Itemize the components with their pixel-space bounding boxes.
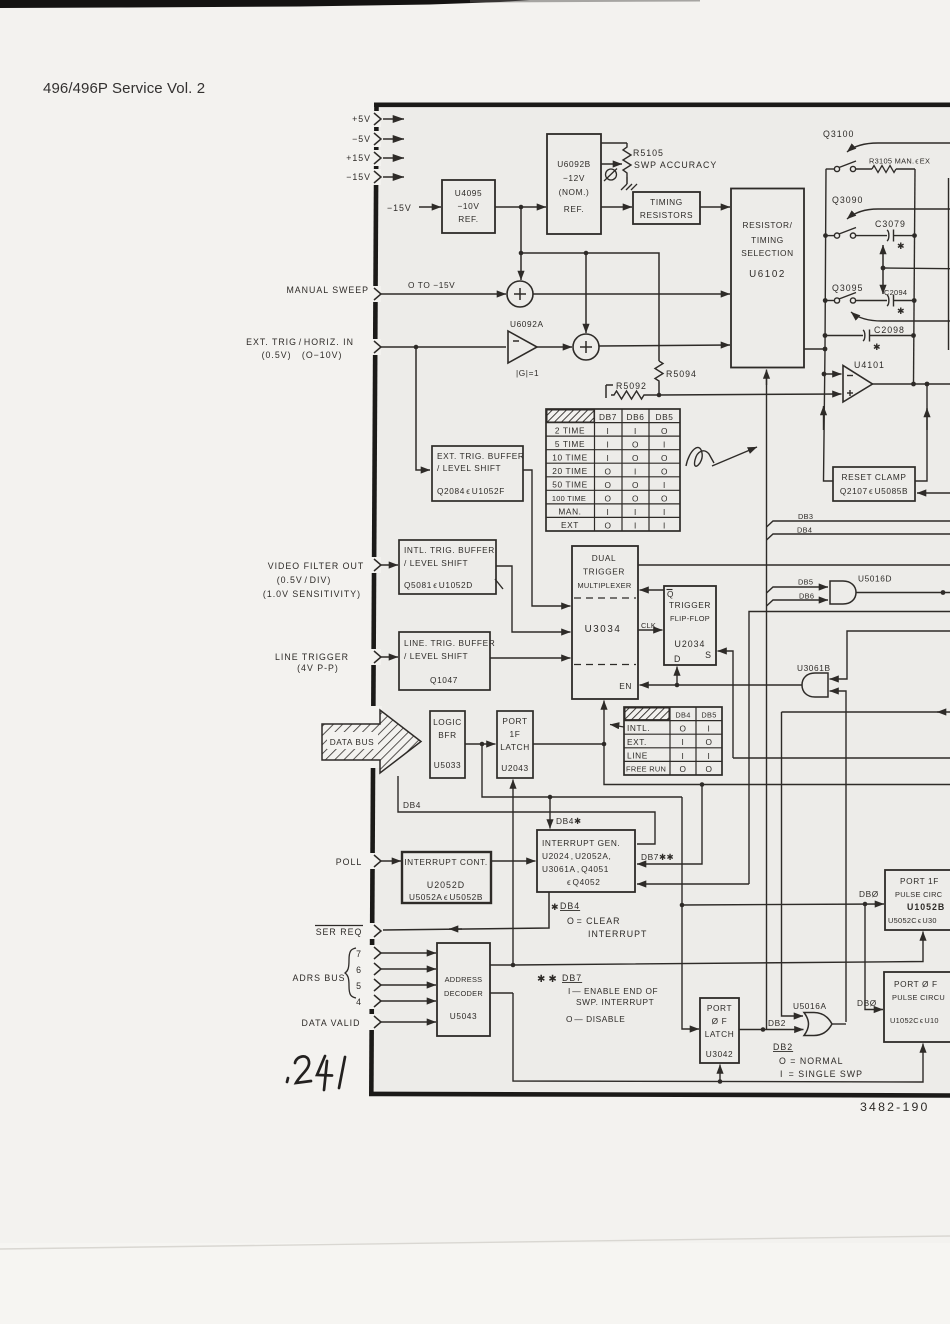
svg-text:O TO −15V: O TO −15V	[408, 280, 455, 290]
svg-text:DATA BUS: DATA BUS	[330, 737, 375, 747]
svg-text:DB7✱✱: DB7✱✱	[641, 852, 674, 862]
svg-text:(4V P-P): (4V P-P)	[297, 663, 339, 673]
svg-text:O: O	[604, 466, 611, 476]
wire DB2 from latch to U5016A	[739, 1029, 804, 1031]
svg-text:I: I	[682, 751, 685, 761]
svg-text:U5016A: U5016A	[793, 1001, 827, 1011]
svg-text:I: I	[708, 751, 711, 761]
svg-text:O = CLEAR: O = CLEAR	[567, 916, 621, 926]
summer circle 1	[507, 281, 533, 307]
svg-text:DB7: DB7	[599, 412, 617, 422]
svg-text:O: O	[661, 426, 668, 436]
svg-text:DB4: DB4	[675, 711, 690, 720]
block ADDRESS DECODER U5043	[437, 943, 490, 1036]
svg-text:/ LEVEL SHIFT: / LEVEL SHIFT	[404, 558, 468, 568]
block PORT 1F LATCH U2043	[497, 711, 533, 778]
wire timing bus left vertical	[824, 169, 834, 481]
transistor switch Q3090	[832, 195, 950, 238]
junction db0 split	[863, 902, 868, 907]
svg-text:DB4✱: DB4✱	[556, 816, 582, 826]
junction output to cap bank	[911, 382, 916, 387]
arrowhead on ser req wire	[449, 928, 462, 930]
svg-text:O: O	[632, 494, 639, 504]
svg-text:O: O	[661, 453, 668, 463]
svg-text:✱: ✱	[897, 241, 905, 251]
schematic interior scan tint	[374, 103, 950, 1096]
wire interrupt cont to interrupt gen	[491, 860, 536, 862]
junction output to reset clamp	[925, 382, 930, 387]
wire Q-bar from U2034 into U3034	[640, 589, 665, 591]
wire DB6 branch to U5016D	[767, 600, 829, 606]
svg-text:U6092B: U6092B	[557, 159, 591, 169]
screwdriver adjust symbol	[604, 169, 617, 182]
svg-text:U4101: U4101	[854, 360, 885, 370]
svg-text:O = NORMAL: O = NORMAL	[779, 1056, 844, 1066]
svg-text:DB4: DB4	[403, 800, 421, 810]
wire db0 down-leg into port 0f latch	[682, 905, 699, 1029]
wire logic bfr to port 1f latch	[465, 743, 496, 745]
svg-text:−15V: −15V	[387, 203, 412, 213]
svg-text:−5V: −5V	[352, 134, 371, 144]
wire U4095 to U6092B	[495, 206, 546, 208]
svg-text:R5094: R5094	[666, 369, 697, 379]
svg-text:DB2: DB2	[768, 1018, 786, 1028]
node ADRS BUS line 5 chevron	[374, 979, 381, 991]
svg-text:|G|=1: |G|=1	[516, 368, 539, 378]
svg-text:U5016D: U5016D	[858, 574, 892, 584]
svg-text:ADDRESS: ADDRESS	[445, 975, 483, 984]
gate U5016D AND	[830, 574, 892, 605]
block INTERRUPT GEN U2024 U2052A U3061A Q4051 Q4052	[537, 830, 635, 892]
node DATA VALID chevron	[374, 1016, 381, 1028]
brace for adrs bus	[345, 948, 356, 998]
svg-text:BFR: BFR	[438, 730, 456, 740]
wire adrs 6	[381, 968, 436, 970]
capacitor C3079	[856, 219, 916, 251]
svg-text:I: I	[607, 426, 610, 436]
junction decoder out	[511, 963, 516, 968]
svg-text:EXT. TRIG. BUFFER: EXT. TRIG. BUFFER	[437, 451, 525, 461]
wire U6102 output to timing bus	[804, 348, 825, 350]
svg-text:PULSE CIRCU: PULSE CIRCU	[892, 993, 945, 1002]
svg-text:Q2084 ϵ U1052F: Q2084 ϵ U1052F	[437, 486, 505, 496]
svg-text:+15V: +15V	[346, 153, 371, 163]
svg-text:✱: ✱	[897, 306, 905, 316]
svg-text:ADRS BUS: ADRS BUS	[293, 973, 346, 983]
svg-text:LINE. TRIG. BUFFER: LINE. TRIG. BUFFER	[404, 638, 495, 648]
junction at U4095 output	[519, 205, 524, 210]
svg-text:496/496P Service Vol. 2: 496/496P Service Vol. 2	[43, 80, 205, 97]
wire end-of-sweep line with left arrow	[782, 711, 950, 713]
svg-text:MULTIPLEXER: MULTIPLEXER	[577, 581, 631, 590]
svg-text:C3079: C3079	[875, 219, 906, 229]
wire D input from EN line	[676, 667, 678, 686]
svg-text:DB5: DB5	[701, 711, 716, 720]
svg-text:−15V: −15V	[346, 172, 371, 182]
wire decoder second output	[490, 992, 513, 994]
svg-text:(NOM.): (NOM.)	[559, 187, 590, 197]
wire U6092A to summer 2	[537, 346, 572, 348]
svg-text:(1.0V SENSITIVITY): (1.0V SENSITIVITY)	[263, 589, 361, 599]
junction U6102 out	[823, 347, 828, 352]
svg-text:DB7: DB7	[562, 973, 582, 983]
svg-text:U3034: U3034	[585, 624, 622, 635]
svg-text:TRIGGER: TRIGGER	[583, 567, 625, 577]
svg-text:DB6: DB6	[627, 412, 645, 422]
node -15V input	[374, 171, 404, 183]
svg-text:5: 5	[356, 981, 362, 991]
wire DB4 branch	[767, 534, 950, 540]
wire poll to interrupt cont	[381, 860, 401, 862]
wire U6092B node down to summer 1	[520, 207, 522, 280]
svg-text:U3042: U3042	[706, 1049, 733, 1059]
svg-text:DECODER: DECODER	[444, 989, 483, 998]
junction port 0f latch strobe	[718, 1079, 723, 1084]
svg-text:RESET CLAMP: RESET CLAMP	[841, 472, 906, 482]
svg-text:I = SINGLE SWP: I = SINGLE SWP	[780, 1069, 863, 1079]
wire single sweep to right edge	[733, 757, 950, 759]
squiggle annotation arrow to timing bus	[686, 447, 714, 466]
wire ext buffer to U3034	[523, 470, 571, 606]
svg-text:O: O	[604, 494, 611, 504]
wire adrs 4	[381, 1000, 436, 1002]
svg-text:PORT Ø F: PORT Ø F	[894, 979, 938, 989]
svg-text:O: O	[679, 724, 686, 734]
svg-text:DB3: DB3	[798, 512, 813, 521]
wire adrs 5	[381, 984, 436, 986]
junction R5092/R5094	[657, 393, 662, 398]
capacitor C2098	[825, 325, 914, 352]
wire -15V to U4095	[419, 206, 441, 208]
block INTL TRIG BUFFER / LEVEL SHIFT Q5081 & U1052D	[399, 540, 496, 594]
schematic frame bottom border	[369, 1092, 950, 1098]
junction C2094 right	[912, 298, 917, 303]
svg-text:U3061B: U3061B	[797, 663, 831, 673]
svg-text:TRIGGER: TRIGGER	[669, 600, 711, 610]
junction inverting input node	[822, 372, 827, 377]
block PORT 0F LATCH U3042	[700, 998, 739, 1063]
note DB4 clear interrupt	[551, 901, 647, 939]
node -5V input	[374, 133, 404, 145]
handwritten page number 241	[287, 1056, 345, 1090]
svg-text:I: I	[634, 466, 637, 476]
wire port1f latch output right	[533, 743, 604, 745]
svg-text:✱: ✱	[551, 902, 559, 912]
data bus hatched arrow	[322, 710, 421, 773]
variable coupling arrow between C3079 and C2094	[882, 245, 884, 294]
wire bus line y611 to right edge	[749, 612, 950, 885]
svg-text:MANUAL SWEEP: MANUAL SWEEP	[286, 285, 369, 295]
lower sheet area below page edge line	[0, 1243, 950, 1324]
svg-text:10 TIME: 10 TIME	[552, 453, 587, 463]
svg-text:50 TIME: 50 TIME	[552, 480, 587, 490]
svg-text:EXT. TRIG / HORIZ. IN: EXT. TRIG / HORIZ. IN	[246, 337, 354, 347]
svg-text:I: I	[663, 521, 666, 531]
wire EN from U3061B output	[640, 684, 803, 686]
wire end of sweep enable from decoder zone	[637, 883, 749, 885]
svg-text:/ LEVEL SHIFT: / LEVEL SHIFT	[404, 651, 468, 661]
svg-text:I: I	[607, 507, 610, 517]
svg-text:I: I	[682, 737, 685, 747]
junction C3079 right	[912, 233, 917, 238]
svg-text:5 TIME: 5 TIME	[555, 439, 585, 449]
svg-text:U5052C ϵ U30: U5052C ϵ U30	[888, 916, 937, 925]
scanner black bar at top edge	[0, 0, 530, 8]
svg-text:I: I	[607, 439, 610, 449]
svg-text:Q1047: Q1047	[430, 675, 458, 685]
wire intl buffer to U3034	[496, 566, 571, 632]
svg-text:U5052A ϵ U5052B: U5052A ϵ U5052B	[409, 892, 483, 902]
IC U6092B -12V (NOM.) REF	[547, 134, 601, 234]
junction DB2 node	[761, 1027, 766, 1032]
svg-text:(0.5V) (O−10V): (0.5V) (O−10V)	[262, 350, 343, 360]
svg-text:O: O	[632, 480, 639, 490]
wire U6092B to timing resistors	[601, 206, 632, 208]
svg-text:U2052D: U2052D	[427, 880, 465, 890]
svg-text:2 TIME: 2 TIME	[555, 425, 585, 435]
capacitor C2094	[856, 288, 916, 316]
svg-text:4: 4	[356, 997, 362, 1007]
svg-text:7: 7	[356, 949, 362, 959]
svg-text:INTERRUPT GEN.: INTERRUPT GEN.	[542, 838, 620, 848]
annotation tick at intl buffer	[495, 579, 503, 589]
junction branch to summer 2	[584, 251, 589, 256]
table timing codes	[546, 409, 680, 531]
junction coupling node	[881, 266, 886, 271]
svg-text:Q5081 ϵ U1052D: Q5081 ϵ U1052D	[404, 580, 473, 590]
wire to U4101 inverting input	[824, 373, 842, 375]
svg-text:DUAL: DUAL	[592, 553, 617, 563]
svg-text:DBØ: DBØ	[857, 998, 877, 1008]
svg-text:100 TIME: 100 TIME	[552, 494, 586, 503]
svg-text:S: S	[705, 650, 712, 660]
svg-text:MAN.: MAN.	[558, 507, 581, 517]
svg-text:DB5: DB5	[798, 578, 813, 587]
svg-text:O — DISABLE: O — DISABLE	[566, 1014, 625, 1024]
block LINE TRIG BUFFER / LEVEL SHIFT Q1047	[399, 632, 495, 690]
wire down to U5016A top input	[782, 712, 804, 1016]
node LINE TRIGGER chevron	[374, 651, 381, 663]
svg-text:SER REQ: SER REQ	[316, 927, 363, 937]
junction on vertical	[519, 251, 524, 256]
svg-text:Q3100: Q3100	[823, 129, 854, 139]
node +15V input	[374, 152, 404, 164]
svg-text:DATA VALID: DATA VALID	[302, 1018, 361, 1028]
svg-text:PORT: PORT	[707, 1003, 732, 1013]
IC U4095 -10V REF	[442, 180, 495, 233]
svg-text:Q2107 ϵ U5085B: Q2107 ϵ U5085B	[840, 486, 908, 496]
annotation curved arrow from table to enable wire	[610, 725, 624, 728]
svg-text:LATCH: LATCH	[500, 742, 530, 752]
svg-text:C2098: C2098	[874, 325, 905, 335]
wire db0 line to port 1f pulse	[682, 904, 884, 905]
IC U6102 RESISTOR/TIMING SELECTION	[731, 189, 804, 368]
block INTERRUPT CONT U2052D	[402, 852, 491, 903]
svg-text:O: O	[632, 439, 639, 449]
node EXT TRIG/HORIZ IN chevron	[374, 341, 381, 353]
wire U5016A output to U3061B lower input	[830, 691, 847, 1022]
junction db0 node	[680, 903, 685, 908]
node +5V input	[374, 113, 404, 125]
svg-text:LATCH: LATCH	[705, 1029, 735, 1039]
wire S input from single-sweep line	[718, 651, 734, 758]
ground chassis for R5105	[621, 184, 637, 190]
svg-text:PORT: PORT	[502, 716, 527, 726]
svg-text:/ LEVEL SHIFT: / LEVEL SHIFT	[437, 463, 501, 473]
svg-text:I: I	[663, 507, 666, 517]
table trigger source codes	[624, 707, 722, 775]
block EXT TRIG BUFFER / LEVEL SHIFT Q2084 & U1052F	[432, 446, 525, 501]
svg-text:POLL: POLL	[336, 857, 363, 867]
wire strobe to port 1f pulse circuit	[513, 932, 923, 966]
wire dbus down right leg	[681, 797, 683, 905]
svg-text:6: 6	[356, 965, 362, 975]
transistor switch Q3095	[832, 283, 950, 321]
svg-text:U6102: U6102	[749, 269, 786, 280]
wire timing bus up arrow into U6102	[766, 375, 768, 1029]
svg-text:(0.5V / DIV): (0.5V / DIV)	[277, 575, 332, 585]
junction ext trig node	[414, 345, 419, 350]
wire video filter to intl buffer	[381, 564, 398, 566]
svg-text:SWP ACCURACY: SWP ACCURACY	[634, 160, 717, 170]
svg-text:TIMING: TIMING	[751, 235, 784, 245]
junction DB4 clear branch	[548, 795, 553, 800]
svg-text:O: O	[632, 453, 639, 463]
svg-text:✱: ✱	[873, 342, 881, 352]
wire U5016A output	[833, 1023, 847, 1025]
svg-text:U1052B: U1052B	[907, 902, 945, 912]
node ADRS BUS line 6 chevron	[374, 963, 381, 975]
svg-text:EXT.: EXT.	[627, 737, 647, 747]
svg-text:Q: Q	[667, 589, 674, 599]
node MANUAL SWEEP input chevron	[374, 288, 381, 300]
svg-text:RESISTORS: RESISTORS	[640, 210, 693, 220]
svg-text:U4095: U4095	[455, 188, 482, 198]
wire decoder output to port1f latch and pulse circuits	[490, 964, 513, 966]
wire CLK U3034 to U2034	[638, 629, 663, 631]
svg-text:ϵ Q4052: ϵ Q4052	[567, 877, 600, 887]
svg-text:INTL.: INTL.	[627, 723, 650, 733]
wire summer2 to U6102	[599, 345, 730, 346]
svg-text:TIMING: TIMING	[650, 197, 683, 207]
wire adrs 7	[381, 952, 436, 954]
junction logic bfr out	[480, 742, 485, 747]
wire up into port 0f latch	[719, 1065, 721, 1082]
block LOGIC BFR U5033	[430, 711, 465, 778]
svg-text:EN: EN	[619, 681, 632, 691]
wire reference branch right	[521, 253, 659, 361]
wire ser req from interrupt gen	[383, 892, 549, 930]
node SER REQ chevron	[374, 925, 381, 937]
junction C2098 left	[823, 333, 828, 338]
svg-text:DB5: DB5	[656, 412, 674, 422]
svg-text:I — ENABLE END OF: I — ENABLE END OF	[568, 986, 658, 996]
node VIDEO FILTER OUT chevron	[374, 559, 381, 571]
wire DB4 latch branch down	[482, 744, 682, 797]
svg-text:R5092: R5092	[616, 381, 647, 391]
block RESET CLAMP Q2107 & U5085B	[833, 467, 915, 501]
svg-text:FREE RUN: FREE RUN	[626, 765, 666, 774]
transistor switch Q3100	[823, 129, 950, 172]
wire DB5 branch to U5016D	[767, 587, 829, 593]
svg-text:I: I	[634, 521, 637, 531]
wire manual sweep to summer	[381, 293, 506, 295]
svg-text:DBØ: DBØ	[859, 889, 879, 899]
svg-text:DB6: DB6	[799, 592, 814, 601]
svg-text:SELECTION: SELECTION	[741, 248, 793, 258]
svg-text:O: O	[604, 480, 611, 490]
wire ext trig down to ext trig buffer	[416, 347, 430, 470]
wire U3034 output to right edge	[638, 564, 950, 566]
svg-text:✱✱: ✱✱	[537, 974, 560, 985]
wire U5016D output to right edge	[856, 592, 950, 594]
wire db0 down to port 0f pulse	[865, 904, 883, 1010]
block TIMING RESISTORS	[633, 192, 700, 224]
op-amp U6092A	[508, 319, 544, 378]
svg-text:1F: 1F	[510, 729, 521, 739]
wire right edge vertical stub	[948, 178, 950, 350]
svg-text:O: O	[661, 466, 668, 476]
svg-text:−10V: −10V	[457, 201, 479, 211]
wire up into port 1f latch	[512, 780, 514, 966]
junction on U5016D output	[941, 590, 946, 595]
svg-text:I: I	[634, 507, 637, 517]
svg-text:O: O	[705, 764, 712, 774]
svg-text:CLK: CLK	[641, 621, 656, 630]
resistor R3105 MAN & EXT	[856, 157, 931, 173]
wire U4101 output to right edge	[873, 383, 950, 385]
svg-text:U2034: U2034	[675, 639, 706, 649]
svg-text:U6092A: U6092A	[510, 319, 544, 329]
svg-text:O: O	[604, 521, 611, 531]
resistor R5092 horizontal	[606, 381, 659, 399]
svg-text:EXT: EXT	[561, 520, 579, 530]
junction D on EN wire	[675, 683, 680, 688]
svg-text:INTL. TRIG. BUFFER: INTL. TRIG. BUFFER	[404, 545, 495, 555]
wire DB7 into interrupt gen	[637, 785, 702, 865]
svg-text:U1052C ϵ U10: U1052C ϵ U10	[890, 1016, 939, 1025]
svg-text:U5033: U5033	[434, 760, 461, 770]
svg-text:+5V: +5V	[352, 114, 371, 124]
svg-text:I: I	[607, 453, 610, 463]
wire latch line down and right	[604, 744, 950, 785]
wire R5092 node to U4101 + input	[659, 394, 842, 395]
svg-text:I: I	[663, 439, 666, 449]
svg-text:O: O	[679, 764, 686, 774]
svg-text:U2024 , U2052A,: U2024 , U2052A,	[542, 851, 611, 861]
svg-text:SWP. INTERRUPT: SWP. INTERRUPT	[576, 997, 654, 1007]
wire ext trig to U6092A	[381, 346, 506, 348]
svg-text:REF.: REF.	[564, 204, 584, 214]
svg-text:REF.: REF.	[458, 214, 478, 224]
svg-text:VIDEO FILTER OUT: VIDEO FILTER OUT	[268, 561, 364, 571]
svg-text:Q3095: Q3095	[832, 283, 863, 293]
block PORT 1F PULSE CIRCUIT U1052B	[885, 870, 950, 930]
note DB7 enable end of sweep	[537, 973, 658, 1024]
svg-text:DB2: DB2	[773, 1042, 793, 1052]
wire line trigger to line buffer	[381, 656, 398, 658]
wire reset clamp right leg	[915, 384, 927, 481]
svg-text:DB4: DB4	[560, 901, 580, 911]
block PORT 0F PULSE CIRCUIT U1052C	[884, 972, 950, 1042]
IC U2034 TRIGGER FLIP-FLOP	[664, 586, 716, 665]
svg-text:O: O	[705, 737, 712, 747]
svg-text:D: D	[674, 654, 681, 664]
svg-text:U3061A , Q4051: U3061A , Q4051	[542, 864, 609, 874]
node ADRS BUS line 4 chevron	[374, 995, 381, 1007]
svg-text:PORT 1F: PORT 1F	[900, 876, 939, 886]
junction port latch line	[602, 742, 607, 747]
